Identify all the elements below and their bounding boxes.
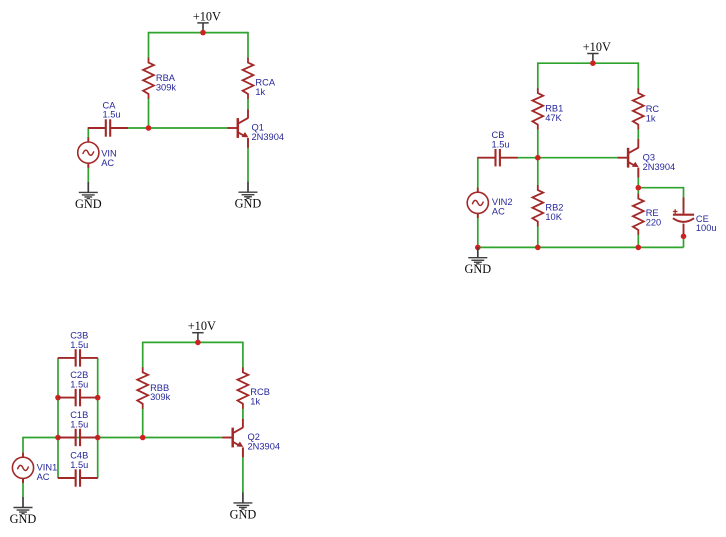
resistor RBB (309k): [137, 367, 170, 408]
wire C1 base row: [127, 127, 229, 129]
wire C1 RCA bottom to collector: [247, 99, 249, 111]
svg-text:GND: GND: [230, 507, 257, 521]
wire C2 emitter node to CE corner: [638, 187, 683, 189]
svg-text:GND: GND: [464, 262, 491, 276]
node C2 CE bottom node: [681, 234, 687, 240]
svg-text:1k: 1k: [255, 87, 265, 97]
svg-text:47K: 47K: [545, 113, 562, 123]
node C2 RB2 bottom node: [535, 245, 541, 251]
svg-text:10K: 10K: [545, 212, 562, 222]
svg-text:2N3904: 2N3904: [248, 442, 281, 452]
svg-text:309k: 309k: [150, 392, 171, 402]
node C2 +10V tap: [590, 60, 596, 66]
node C3 +10V tap: [195, 340, 201, 346]
svg-text:GND: GND: [235, 197, 262, 211]
wire C1 RBA bottom to base node: [148, 99, 150, 129]
svg-text:309k: 309k: [156, 82, 177, 92]
wire C2 RB2 top: [537, 158, 539, 186]
wire C2 CE bottom: [683, 236, 685, 247]
AC source VIN: [78, 137, 117, 167]
wire C1 VIN to ground: [87, 163, 89, 183]
power +10V P3: [188, 319, 216, 342]
svg-text:1.5u: 1.5u: [70, 380, 88, 390]
capacitor C3B (1.5u): [58, 331, 98, 367]
svg-text:Q1: Q1: [252, 122, 264, 132]
node C1 +10V tap: [200, 30, 206, 36]
node C1 base node: [146, 125, 152, 131]
wire C2 bottom rail: [478, 246, 684, 248]
resistor RB2 (10K): [532, 185, 563, 226]
wire C3 emitter to ground: [242, 448, 244, 494]
ground C3 emitter ground: [230, 493, 257, 522]
ground C3 source ground: [10, 497, 37, 526]
node C3 ladder right C1B node: [95, 435, 101, 441]
wire C3 VIN1 to ground: [22, 478, 24, 498]
wire C3 cap ladder right rail: [97, 358, 99, 478]
node C2 ground node: [475, 245, 481, 251]
node C2 base node: [535, 155, 541, 161]
wire C3 RBB top: [142, 342, 144, 368]
svg-text:1.5u: 1.5u: [103, 110, 121, 120]
svg-text:RCA: RCA: [255, 77, 275, 87]
capacitor C4B (1.5u): [58, 451, 98, 487]
node C3 ladder left C1B node: [55, 435, 61, 441]
svg-text:GND: GND: [10, 512, 37, 526]
resistor RBA (309k): [143, 58, 176, 99]
svg-text:1.5u: 1.5u: [492, 139, 510, 149]
svg-text:AC: AC: [101, 158, 114, 168]
resistor RCA (1k): [243, 58, 276, 99]
resistor RCB (1k): [238, 367, 270, 408]
transistor Q3 (2N3904): [618, 139, 675, 177]
svg-text:1k: 1k: [646, 114, 656, 124]
svg-text:2N3904: 2N3904: [252, 132, 285, 142]
wire C2 base row: [517, 157, 619, 159]
ground C1 source ground: [75, 182, 102, 211]
svg-text:1.5u: 1.5u: [70, 340, 88, 350]
svg-text:Q3: Q3: [643, 152, 655, 162]
AC source VIN2: [467, 188, 512, 218]
ground C1 emitter ground: [235, 182, 262, 211]
wire C1 RCA top: [247, 32, 249, 58]
capacitor CA (1.5u): [88, 100, 128, 136]
wire C2 RB1 top: [537, 62, 539, 88]
wire C2 input corner vertical: [477, 157, 479, 188]
wire C2 RC top: [637, 62, 639, 88]
wire C2 RB2 bottom: [537, 226, 539, 247]
capacitor CB (1.5u): [478, 130, 518, 166]
wire C3 input corner vertical: [22, 437, 24, 453]
node C2 emitter node: [636, 185, 642, 191]
capacitor C2B (1.5u): [58, 370, 98, 406]
wire C2 RC bottom to collector: [637, 129, 639, 140]
wire C2 RE bottom: [637, 235, 639, 248]
svg-text:+10V: +10V: [193, 9, 221, 23]
wire C3 RCB bottom to collector: [242, 408, 244, 419]
capacitor CE (100u, polarized): [673, 198, 717, 235]
node C2 RE bottom node: [636, 245, 642, 251]
transistor Q1 (2N3904): [227, 109, 284, 147]
wire C2 CE top drop: [683, 187, 685, 209]
resistor RE (220): [633, 194, 661, 235]
transistor Q2 (2N3904): [222, 419, 280, 457]
svg-text:Q2: Q2: [248, 432, 260, 442]
svg-text:+10V: +10V: [188, 319, 216, 333]
svg-text:1.5u: 1.5u: [70, 419, 88, 429]
wire C3 base row: [23, 437, 223, 439]
svg-text:2N3904: 2N3904: [643, 162, 676, 172]
wire C3 top rail: [143, 341, 243, 343]
wire C2 VIN2 to bottom rail: [477, 213, 479, 247]
node C3 ladder left C2B node: [55, 395, 61, 401]
svg-text:220: 220: [646, 217, 662, 227]
ground C2 ground: [464, 247, 491, 276]
wire C3 cap ladder left rail: [57, 358, 59, 478]
power +10V P1: [193, 9, 221, 32]
svg-text:1.5u: 1.5u: [70, 460, 88, 470]
AC source VIN1: [12, 453, 57, 483]
wire C1 input corner vertical: [87, 127, 89, 138]
capacitor C1B (1.5u): [58, 410, 98, 446]
svg-text:AC: AC: [37, 472, 50, 482]
svg-text:+10V: +10V: [583, 40, 611, 54]
svg-text:1k: 1k: [250, 397, 260, 407]
wire C3 RBB bottom to base node: [142, 408, 144, 437]
wire C2 emitter to node: [637, 168, 639, 188]
wire C3 RCB top: [242, 342, 244, 368]
svg-text:100u: 100u: [696, 223, 717, 233]
wire C2 RE top: [637, 188, 639, 194]
wire C2 RB1 bottom to base node: [537, 129, 539, 158]
wire C1 emitter to ground: [247, 138, 249, 182]
resistor RB1 (47K): [532, 88, 563, 129]
power +10V P2: [583, 40, 611, 63]
node C3 ladder right C2B node: [95, 395, 101, 401]
wire C2 top rail: [538, 62, 639, 64]
node C3 base node: [140, 435, 146, 441]
svg-text:GND: GND: [75, 197, 102, 211]
svg-text:AC: AC: [492, 206, 505, 216]
wire C1 top rail: [149, 32, 249, 34]
resistor RC (1k): [633, 88, 660, 129]
wire C1 RBA top: [148, 32, 150, 58]
